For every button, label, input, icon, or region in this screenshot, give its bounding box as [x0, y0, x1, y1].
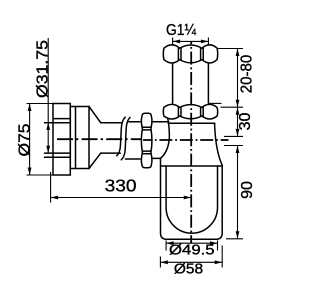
- svg-text:Ø49.5: Ø49.5: [169, 243, 215, 259]
- svg-text:Ø75: Ø75: [16, 123, 33, 156]
- svg-text:Ø31.75: Ø31.75: [35, 40, 52, 98]
- svg-text:Ø58: Ø58: [174, 262, 203, 278]
- svg-text:90: 90: [239, 181, 256, 199]
- svg-text:20-80: 20-80: [238, 55, 255, 94]
- svg-text:330: 330: [105, 175, 137, 195]
- svg-text:30: 30: [237, 112, 254, 130]
- svg-text:G1¼: G1¼: [166, 22, 197, 39]
